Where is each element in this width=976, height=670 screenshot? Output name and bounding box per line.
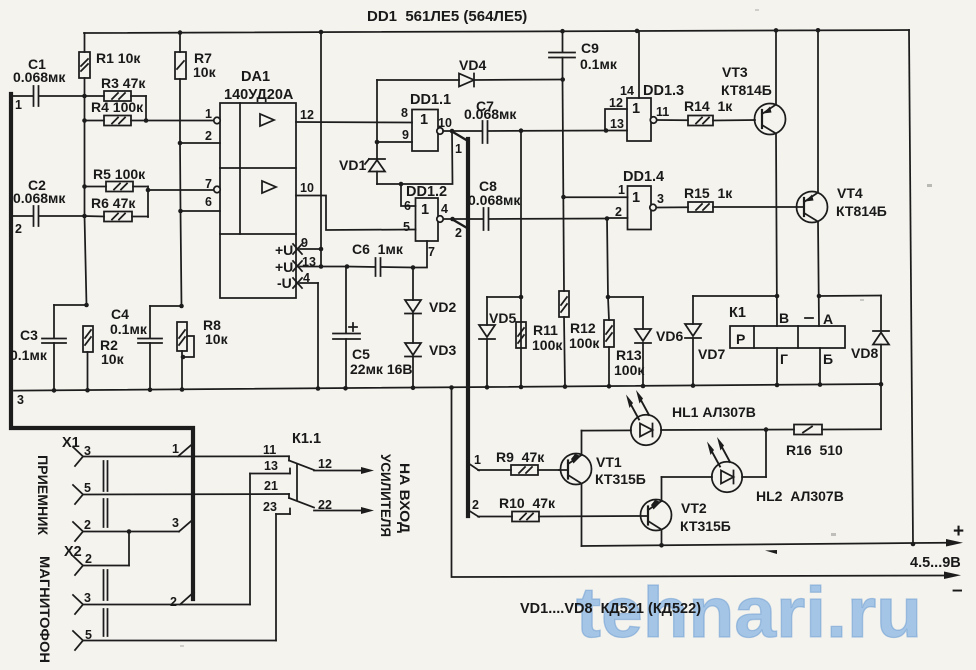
svg-text:2: 2 <box>615 205 622 219</box>
svg-text:2: 2 <box>15 222 22 236</box>
cable pair marks X2 <box>104 570 108 636</box>
svg-text:10: 10 <box>438 116 452 130</box>
svg-text:1: 1 <box>455 142 462 156</box>
svg-text:1: 1 <box>632 101 640 117</box>
wire X2.5 up to contact 23 <box>275 514 277 641</box>
svg-text:R16 510: R16 510 <box>786 442 843 458</box>
node 2 label top <box>455 226 462 240</box>
svg-text:11: 11 <box>656 105 669 119</box>
svg-text:VT3: VT3 <box>722 64 748 80</box>
svg-text:VD1: VD1 <box>339 157 366 173</box>
wire top supply rail <box>84 30 909 33</box>
DA1 power pin 4 <box>277 271 318 388</box>
node 1 label <box>15 98 22 112</box>
text НА ВХОД vertical <box>397 463 413 533</box>
svg-text:12: 12 <box>300 108 314 122</box>
svg-text:–: – <box>952 580 963 601</box>
svg-text:1: 1 <box>474 453 481 467</box>
svg-text:VD7: VD7 <box>698 346 725 362</box>
svg-text:К1: К1 <box>729 305 746 321</box>
svg-text:9: 9 <box>301 236 308 250</box>
svg-text:VD4: VD4 <box>459 57 486 73</box>
capacitor C3 <box>10 305 87 391</box>
svg-text:100к: 100к <box>532 337 563 353</box>
wire VD4 to pin9 node <box>376 80 378 142</box>
svg-text:HL2 АЛ307В: HL2 АЛ307В <box>756 488 844 504</box>
text МАГНИТОФОН vertical <box>37 556 53 663</box>
capacitor C8 <box>453 178 608 230</box>
op-amp DA1 <box>205 69 314 298</box>
svg-text:100к: 100к <box>614 362 645 378</box>
svg-text:7: 7 <box>428 245 435 259</box>
svg-text:0.068мк: 0.068мк <box>468 192 521 208</box>
svg-text:2: 2 <box>84 518 91 532</box>
resistor R11 <box>516 322 563 353</box>
svg-text:2: 2 <box>170 595 177 609</box>
svg-text:6: 6 <box>205 195 212 209</box>
node plus dot <box>911 542 916 547</box>
svg-text:1: 1 <box>618 183 625 197</box>
svg-text:В: В <box>779 310 789 326</box>
svg-text:0.1мк: 0.1мк <box>580 56 618 72</box>
wire shielded cable left (node bus) <box>11 94 193 599</box>
wire R7 chain down to pin6 and R8 <box>180 143 182 306</box>
svg-text:R14 1к: R14 1к <box>684 98 733 114</box>
wire VT3 emitter to rail <box>775 30 777 104</box>
svg-text:0.068мк: 0.068мк <box>13 69 66 85</box>
svg-text:C5: C5 <box>352 346 370 362</box>
wire DA1 pin12 to DD1.1 pin8 <box>296 121 412 124</box>
svg-text:К1.1: К1.1 <box>292 431 321 447</box>
svg-text:X1: X1 <box>62 435 80 451</box>
relay K1 <box>729 305 845 367</box>
connector X2 label <box>64 544 82 560</box>
wire HL2 up to HL1 node <box>765 430 767 477</box>
svg-text:C9: C9 <box>581 40 599 56</box>
resistor R5 <box>85 166 149 217</box>
resistor R7 <box>175 33 217 143</box>
wire DD1.4 pin2 <box>607 217 628 219</box>
svg-text:R4 100к: R4 100к <box>91 99 144 115</box>
wire relay Г to bus <box>776 348 778 385</box>
node 1 diagonal to cable <box>172 442 194 456</box>
resistor R4 <box>84 99 146 126</box>
svg-text:10: 10 <box>300 181 314 195</box>
svg-text:КТ814Б: КТ814Б <box>721 82 772 98</box>
svg-text:Б: Б <box>823 351 833 367</box>
logic gate DD1.1 <box>401 92 452 151</box>
svg-text:2: 2 <box>85 552 92 566</box>
svg-text:10к: 10к <box>205 331 229 347</box>
svg-text:DD1.4: DD1.4 <box>623 169 664 185</box>
diode VD6 <box>608 297 683 386</box>
svg-text:КТ814Б: КТ814Б <box>836 203 887 219</box>
svg-text:C4: C4 <box>111 306 129 322</box>
svg-text:X2: X2 <box>64 544 82 560</box>
LED HL2 <box>662 437 844 504</box>
svg-text:VD6: VD6 <box>656 328 683 344</box>
svg-text:R1 10к: R1 10к <box>96 50 141 66</box>
svg-text:УСИЛИТЕЛЯ: УСИЛИТЕЛЯ <box>378 454 394 537</box>
contact 23 <box>263 500 290 514</box>
svg-text:HL1 АЛ307В: HL1 АЛ307В <box>672 404 756 420</box>
svg-text:6: 6 <box>404 199 411 213</box>
node 3 diagonal to cable <box>172 516 194 532</box>
wire C8 node down to R13 <box>607 219 608 298</box>
svg-text:13: 13 <box>264 459 278 473</box>
svg-text:1: 1 <box>172 442 179 456</box>
node relay junction dots <box>519 294 822 300</box>
wire VT1 collector up to HL1 <box>581 431 583 455</box>
svg-text:3: 3 <box>84 591 91 605</box>
logic gate DD1.3 <box>609 83 688 141</box>
connector X1 pin 2 <box>73 518 179 541</box>
svg-text:1: 1 <box>420 112 428 128</box>
wire VT3 collector to relay <box>776 134 777 327</box>
svg-text:DD1.2: DD1.2 <box>406 184 447 200</box>
svg-text:0.068мк: 0.068мк <box>464 106 517 122</box>
arrow direction mark on plus line <box>765 550 777 554</box>
wire DD1.1 pin9 <box>377 141 412 143</box>
node rail junction dots <box>178 28 821 35</box>
DA1 power pin 9 <box>275 236 321 258</box>
wire minus rail <box>452 388 947 578</box>
svg-text:R12: R12 <box>570 320 596 336</box>
contact 13 <box>250 459 290 474</box>
svg-text:12: 12 <box>609 96 623 110</box>
svg-text:1: 1 <box>15 98 22 112</box>
node ground bus dots <box>52 382 884 393</box>
capacitor C5 electrolytic <box>333 267 413 389</box>
connector X1 pin 3 <box>73 444 289 466</box>
contact arm 1 <box>289 461 314 471</box>
svg-text:140УД20А: 140УД20А <box>224 87 294 103</box>
svg-text:0.068мк: 0.068мк <box>13 190 66 206</box>
wire shielded cable center <box>466 139 470 516</box>
svg-text:11: 11 <box>263 443 276 457</box>
terminal plus arrow <box>910 521 964 571</box>
wire R5R6 node to DA1 pin7 <box>148 189 214 191</box>
wire DD1.3 pins 12-13 bracket <box>605 109 627 131</box>
svg-text:5: 5 <box>403 220 410 234</box>
svg-text:VT1: VT1 <box>596 454 622 470</box>
svg-text:-U: -U <box>277 275 292 291</box>
relay contacts K1.1 label <box>292 431 321 447</box>
svg-text:3: 3 <box>657 192 664 206</box>
wire left bias chain <box>85 96 87 305</box>
svg-text:DD1 561ЛЕ5 (564ЛЕ5): DD1 561ЛЕ5 (564ЛЕ5) <box>367 8 527 25</box>
wire R16 up to bus <box>880 384 882 429</box>
diode VD4 <box>377 57 563 87</box>
svg-text:VD5: VD5 <box>489 310 516 326</box>
svg-text:22мк 16В: 22мк 16В <box>350 361 413 377</box>
logic gate DD1.2 <box>403 184 453 259</box>
svg-text:R6 47к: R6 47к <box>91 195 136 211</box>
node 1 label top <box>455 142 462 156</box>
connector X2 pin 5 <box>73 628 276 650</box>
cable pair marks X1 <box>104 461 108 527</box>
svg-text:R10 47к: R10 47к <box>499 495 556 511</box>
node 2 label bottom <box>472 498 479 512</box>
svg-text:21: 21 <box>264 479 278 493</box>
capacitor C1 <box>13 56 84 106</box>
scan speck marks <box>180 9 932 647</box>
wire relay A to VD8 <box>819 295 881 298</box>
svg-text:1: 1 <box>205 107 212 121</box>
wire VT4 collector to relay <box>818 222 819 327</box>
svg-text:1: 1 <box>421 202 429 218</box>
svg-text:10к: 10к <box>193 64 217 80</box>
LED HL1 <box>582 390 767 445</box>
svg-text:R5 100к: R5 100к <box>93 166 146 182</box>
transistor VT4 <box>797 185 887 223</box>
svg-text:+U: +U <box>275 242 293 258</box>
svg-text:VD8: VD8 <box>851 345 878 361</box>
wire DD1.3 pin14 to rail <box>638 31 640 98</box>
node 2 diagonal to cable <box>170 592 194 609</box>
svg-text:VT2: VT2 <box>681 500 707 516</box>
wire VD7 to relay B line <box>693 295 777 297</box>
title DD1 <box>367 8 527 25</box>
svg-text:0.1мк: 0.1мк <box>110 321 148 337</box>
wire R4 node to DA1 pin1 <box>146 120 214 122</box>
svg-text:VD3: VD3 <box>429 342 456 358</box>
wire R7 to DA1 pin2 <box>180 142 220 144</box>
diode VD3 <box>405 314 456 389</box>
svg-text:DD1.1: DD1.1 <box>410 92 451 108</box>
node mid junction dots <box>375 77 610 270</box>
wire C6 to DD1.2 pin7 <box>413 241 427 268</box>
svg-text:+U: +U <box>275 259 293 275</box>
wire DD1.1 out feedback to DD1.2 <box>377 131 453 184</box>
wire DA1 pin6 <box>181 210 221 212</box>
svg-text:DD1.3: DD1.3 <box>643 83 684 99</box>
wire VT2 collector up to HL2 <box>661 477 663 501</box>
svg-text:100к: 100к <box>569 335 600 351</box>
capacitor C2 <box>13 177 84 226</box>
connector X2 pin 3 <box>73 591 250 614</box>
resistor R1 <box>79 33 141 96</box>
diode VD1 zener <box>339 142 385 184</box>
svg-text:10к: 10к <box>101 351 125 367</box>
diode VD5 <box>479 297 521 387</box>
svg-text:R3 47к: R3 47к <box>101 75 146 91</box>
wire DD1.2 pin6 tap <box>401 184 416 206</box>
wire C7 node down to VD5 R11 <box>520 131 522 387</box>
resistor R9 <box>478 449 559 475</box>
capacitor C6 <box>347 241 413 276</box>
svg-text:4.5...9В: 4.5...9В <box>910 555 961 571</box>
svg-text:R11: R11 <box>533 322 558 338</box>
capacitor C4 <box>110 306 182 390</box>
node left net dots <box>82 94 349 360</box>
node 2 label <box>15 222 22 236</box>
svg-text:R9 47к: R9 47к <box>496 449 545 465</box>
svg-text:VD1....VD8 КД521 (КД522): VD1....VD8 КД521 (КД522) <box>520 601 701 617</box>
svg-text:1: 1 <box>632 190 640 206</box>
svg-text:0.1мк: 0.1мк <box>10 347 48 363</box>
svg-text:2: 2 <box>205 129 212 143</box>
svg-text:МАГНИТОФОН: МАГНИТОФОН <box>37 556 53 663</box>
resistor R8 trimmer <box>177 317 229 390</box>
svg-text:C3: C3 <box>20 327 38 343</box>
note diode types <box>520 601 701 617</box>
svg-text:ПРИЕМНИК: ПРИЕМНИК <box>35 455 51 535</box>
svg-text:7: 7 <box>205 177 212 191</box>
wire plus line <box>582 543 914 546</box>
svg-text:12: 12 <box>318 457 332 471</box>
svg-text:3: 3 <box>172 516 179 530</box>
text ПРИЕМНИК vertical <box>35 455 51 535</box>
wire X2.2 jumper up to X1.2 <box>128 532 130 566</box>
wire relay Б to bus <box>819 348 821 385</box>
wire X2.3 up to contact 13 <box>249 474 251 605</box>
svg-text:Р: Р <box>736 331 745 347</box>
connector X2 pin 2 <box>73 552 129 575</box>
transistor VT2 <box>641 500 731 535</box>
capacitor C7 <box>452 98 606 143</box>
svg-text:22: 22 <box>318 498 332 512</box>
svg-text:C6 1мк: C6 1мк <box>352 241 404 257</box>
resistor R15 <box>684 185 804 212</box>
diode VD8 <box>851 296 889 385</box>
svg-text:23: 23 <box>263 500 277 514</box>
svg-text:R13: R13 <box>616 347 642 363</box>
diode VD2 <box>405 268 456 316</box>
text УСИЛИТЕЛЯ vertical <box>378 454 394 537</box>
transistor VT3 <box>721 64 786 135</box>
svg-text:КТ315Б: КТ315Б <box>595 471 646 487</box>
wire ground bus <box>14 384 881 391</box>
resistor R13 <box>604 297 645 386</box>
svg-text:3: 3 <box>17 393 24 407</box>
diode VD7 <box>685 296 725 386</box>
svg-text:VT4: VT4 <box>837 185 863 201</box>
logic gate DD1.4 <box>615 169 688 230</box>
node LED dots <box>659 427 768 547</box>
contact mechanical link <box>296 464 298 500</box>
svg-text:13: 13 <box>610 117 624 131</box>
wire right supply drop <box>909 30 913 543</box>
node jumper dot <box>127 529 132 534</box>
contact 22 wire with arrow <box>314 498 374 514</box>
resistor R6 <box>84 195 148 222</box>
DA1 power pin 13 <box>275 255 347 275</box>
resistor R10 <box>478 495 647 522</box>
connector X1 pin 5 <box>73 481 289 504</box>
svg-text:НА ВХОД: НА ВХОД <box>397 463 413 533</box>
contact arm 2 <box>289 498 314 508</box>
svg-text:А: А <box>823 311 833 327</box>
resistor R3 <box>84 75 146 121</box>
wire DA1 pin10 to DD1.2 pin5 <box>296 196 416 231</box>
resistor R2 <box>83 326 125 390</box>
contact 12 wire with arrow <box>314 457 374 474</box>
svg-text:R15 1к: R15 1к <box>684 185 733 201</box>
svg-text:2: 2 <box>472 498 479 512</box>
terminal minus arrow <box>944 572 963 602</box>
transistor VT1 <box>559 454 646 488</box>
resistor R16 <box>766 425 881 459</box>
connector X1 label <box>62 435 80 451</box>
node 1 label bottom <box>474 453 481 467</box>
node 3 label <box>17 393 24 407</box>
wire C9 drop to DD1.4 pin1 and R12 <box>563 80 565 292</box>
resistor R14 <box>684 98 755 126</box>
wire VT4 emitter to rail <box>817 30 819 192</box>
svg-text:DA1: DA1 <box>241 69 270 85</box>
svg-text:9: 9 <box>402 128 409 142</box>
svg-text:+: + <box>953 521 964 542</box>
svg-text:4: 4 <box>441 202 448 216</box>
contact 21 <box>264 479 289 498</box>
svg-text:Г: Г <box>780 351 788 367</box>
svg-text:5: 5 <box>84 481 91 495</box>
capacitor C9 <box>549 31 618 80</box>
wire DD1.4 pin1 <box>564 196 628 198</box>
contact 11 <box>263 443 289 461</box>
watermark tehnari.ru <box>576 574 922 653</box>
svg-text:2: 2 <box>455 226 462 240</box>
svg-text:КТ315Б: КТ315Б <box>680 518 731 534</box>
svg-text:VD2: VD2 <box>429 299 456 315</box>
resistor R12 <box>559 291 600 387</box>
wire VT2 emitter down <box>661 530 663 546</box>
wire +U supply drop from rail <box>320 32 322 267</box>
wire VT1 emitter down <box>581 484 583 547</box>
svg-text:8: 8 <box>401 106 408 120</box>
